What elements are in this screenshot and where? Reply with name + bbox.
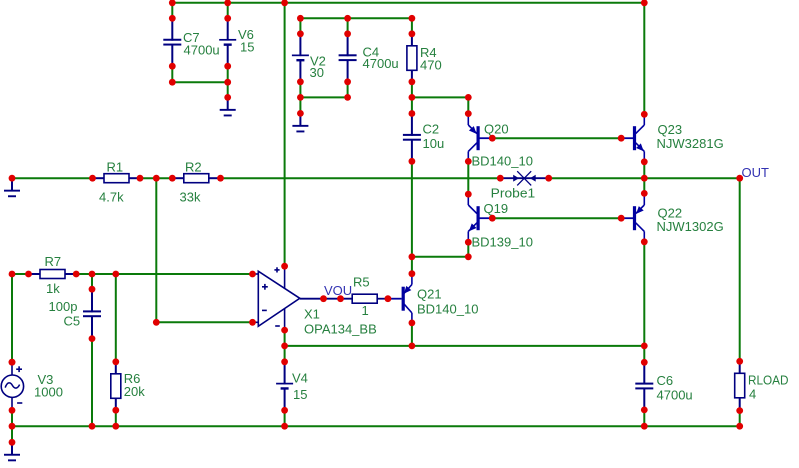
wire V3 bottom	[11, 410, 13, 426]
svg-text:20k: 20k	[124, 384, 145, 399]
wire C7 bottom	[171, 66, 173, 82]
wire C4 top lead	[347, 18, 349, 34]
ground bottom left	[4, 442, 20, 461]
voltage source V3	[1, 359, 63, 410]
wire feedback column	[155, 178, 157, 322]
wire op-amp V- to negative rail	[284, 330, 286, 362]
capacitor C4	[339, 34, 399, 82]
wire RLOAD bottom	[739, 411, 741, 427]
svg-text:100p: 100p	[49, 299, 78, 314]
op-amp X1	[253, 266, 377, 336]
svg-text:4700u: 4700u	[184, 42, 220, 57]
svg-text:10u: 10u	[423, 136, 445, 151]
svg-text:BD139_10: BD139_10	[472, 234, 533, 249]
wire Q23 emitter to OUT rail	[643, 162, 645, 178]
battery V2	[292, 34, 326, 82]
wire top supply rail y=3	[172, 2, 644, 4]
resistor R7	[29, 254, 77, 296]
svg-text:Q21: Q21	[417, 286, 442, 301]
svg-text:C2: C2	[423, 122, 440, 137]
resistor R6	[111, 362, 145, 410]
wire C5 bottom to ground rail	[91, 339, 93, 427]
svg-text:C6: C6	[657, 373, 674, 388]
svg-text:BD140_10: BD140_10	[472, 154, 533, 169]
wire Q22 collector down	[643, 242, 645, 346]
wire R1 to R2	[140, 177, 172, 179]
transistor Q23	[620, 114, 723, 162]
wire R7 to op-amp plus input	[76, 273, 252, 275]
ground below V2	[292, 113, 308, 132]
wire C4 bottom	[347, 82, 349, 98]
wire V2-C4 bottom junction	[300, 96, 347, 98]
wire OUT to RLOAD	[739, 178, 741, 361]
wire R4 bottom	[411, 82, 413, 114]
wire C2 bottom to emitter rail	[411, 161, 413, 256]
resistor R1	[93, 159, 141, 204]
wire output-stage supply column to Q23	[643, 3, 645, 115]
wire V6 top lead	[227, 3, 229, 18]
wire bottom rail to ground	[11, 426, 13, 442]
resistor R2	[172, 159, 220, 204]
svg-text:C5: C5	[64, 314, 81, 329]
node OUT label	[742, 165, 770, 180]
wire Probe1 to OUT	[549, 177, 740, 179]
svg-text:4: 4	[749, 387, 756, 402]
wire R4 top lead	[411, 18, 413, 34]
svg-text:30: 30	[310, 65, 324, 80]
resistor RLOAD	[735, 361, 789, 410]
transistor Q19	[468, 194, 533, 249]
op-amp output lead	[300, 298, 352, 300]
capacitor C7	[163, 18, 219, 66]
svg-text:RLOAD: RLOAD	[748, 372, 789, 387]
svg-text:NJW3281G: NJW3281G	[657, 136, 724, 151]
svg-text:4700u: 4700u	[657, 388, 693, 403]
svg-text:470: 470	[420, 58, 442, 73]
wire C7 top lead	[171, 3, 173, 18]
transistor Q20	[468, 114, 533, 168]
svg-text:OPA134_BB: OPA134_BB	[304, 322, 377, 337]
svg-text:R5: R5	[353, 274, 370, 289]
svg-text:X1: X1	[304, 307, 320, 322]
ground at input	[4, 178, 20, 197]
ground below V6	[220, 97, 236, 116]
svg-text:4.7k: 4.7k	[99, 189, 124, 204]
wire Q20 emitter top lead	[467, 97, 469, 113]
battery V6	[219, 18, 254, 66]
wire V4 bottom	[284, 410, 286, 426]
wire R6 bottom	[115, 410, 117, 426]
svg-text:BD140_10: BD140_10	[417, 301, 478, 316]
wire Q20 collector to Q19 collector	[467, 161, 469, 194]
wire Q19 emitter down	[467, 242, 469, 257]
svg-text:VOU: VOU	[324, 283, 352, 298]
capacitor C2	[403, 114, 444, 162]
wire Q19 base to Q22 base	[492, 217, 621, 219]
svg-text:OUT: OUT	[742, 165, 770, 180]
resistor R4	[407, 34, 442, 82]
transistor Q22	[620, 194, 723, 242]
wire V6 bottom	[227, 66, 229, 97]
svg-text:15: 15	[293, 387, 307, 402]
wire R2 to Probe1	[221, 177, 501, 179]
wire V2 top lead	[299, 18, 301, 34]
resistor R5	[352, 274, 388, 318]
wire Q21 collector down	[411, 323, 413, 346]
wire C6 top lead	[643, 346, 645, 362]
wire C6 bottom	[643, 410, 645, 426]
wire Q20 base to Q23 base	[492, 137, 621, 139]
wire V3 column	[11, 274, 13, 362]
svg-text:Probe1: Probe1	[491, 185, 536, 200]
svg-text:Q19: Q19	[484, 201, 509, 216]
svg-text:R7: R7	[45, 254, 62, 269]
svg-text:Q23: Q23	[658, 122, 683, 137]
wire negative rail to C6	[285, 345, 645, 347]
wire OUT rail to Q22 emitter	[643, 178, 645, 193]
wire positive supply column to op-amp V+	[284, 3, 286, 266]
current probe Probe1	[491, 171, 549, 200]
wire R6 top lead	[115, 274, 117, 362]
svg-text:R1: R1	[107, 159, 124, 174]
wire V3 to R7	[12, 273, 29, 275]
svg-text:1000: 1000	[34, 384, 63, 399]
svg-text:R2: R2	[185, 159, 202, 174]
svg-text:1: 1	[362, 303, 369, 318]
svg-text:33k: 33k	[180, 189, 201, 204]
wire Q21 emitter lead	[411, 257, 413, 274]
svg-text:NJW1302G: NJW1302G	[657, 219, 724, 234]
wire bottom ground rail	[12, 425, 740, 427]
wire Q19 emitter to Q21 emitter	[412, 256, 468, 258]
wire R4 to Q20 emitter	[412, 96, 468, 98]
capacitor C5	[49, 289, 102, 338]
wire feedback to op-amp minus input	[156, 321, 252, 323]
svg-text:1k: 1k	[46, 281, 60, 296]
node VOU label	[324, 283, 352, 298]
wire V2/C4/R4 top rail y=18	[300, 17, 412, 19]
wire input rail left segment	[12, 177, 93, 179]
wire C7-V6 bottom junction	[172, 81, 227, 83]
svg-text:4700u: 4700u	[363, 56, 399, 71]
svg-text:Q20: Q20	[484, 121, 509, 136]
svg-text:V4: V4	[292, 370, 308, 385]
wire V2 bottom	[299, 82, 301, 114]
svg-text:15: 15	[240, 39, 254, 54]
wire C5 top lead	[91, 274, 93, 289]
transistor Q21	[388, 274, 479, 323]
capacitor C6	[635, 362, 692, 410]
battery V4	[276, 362, 308, 411]
